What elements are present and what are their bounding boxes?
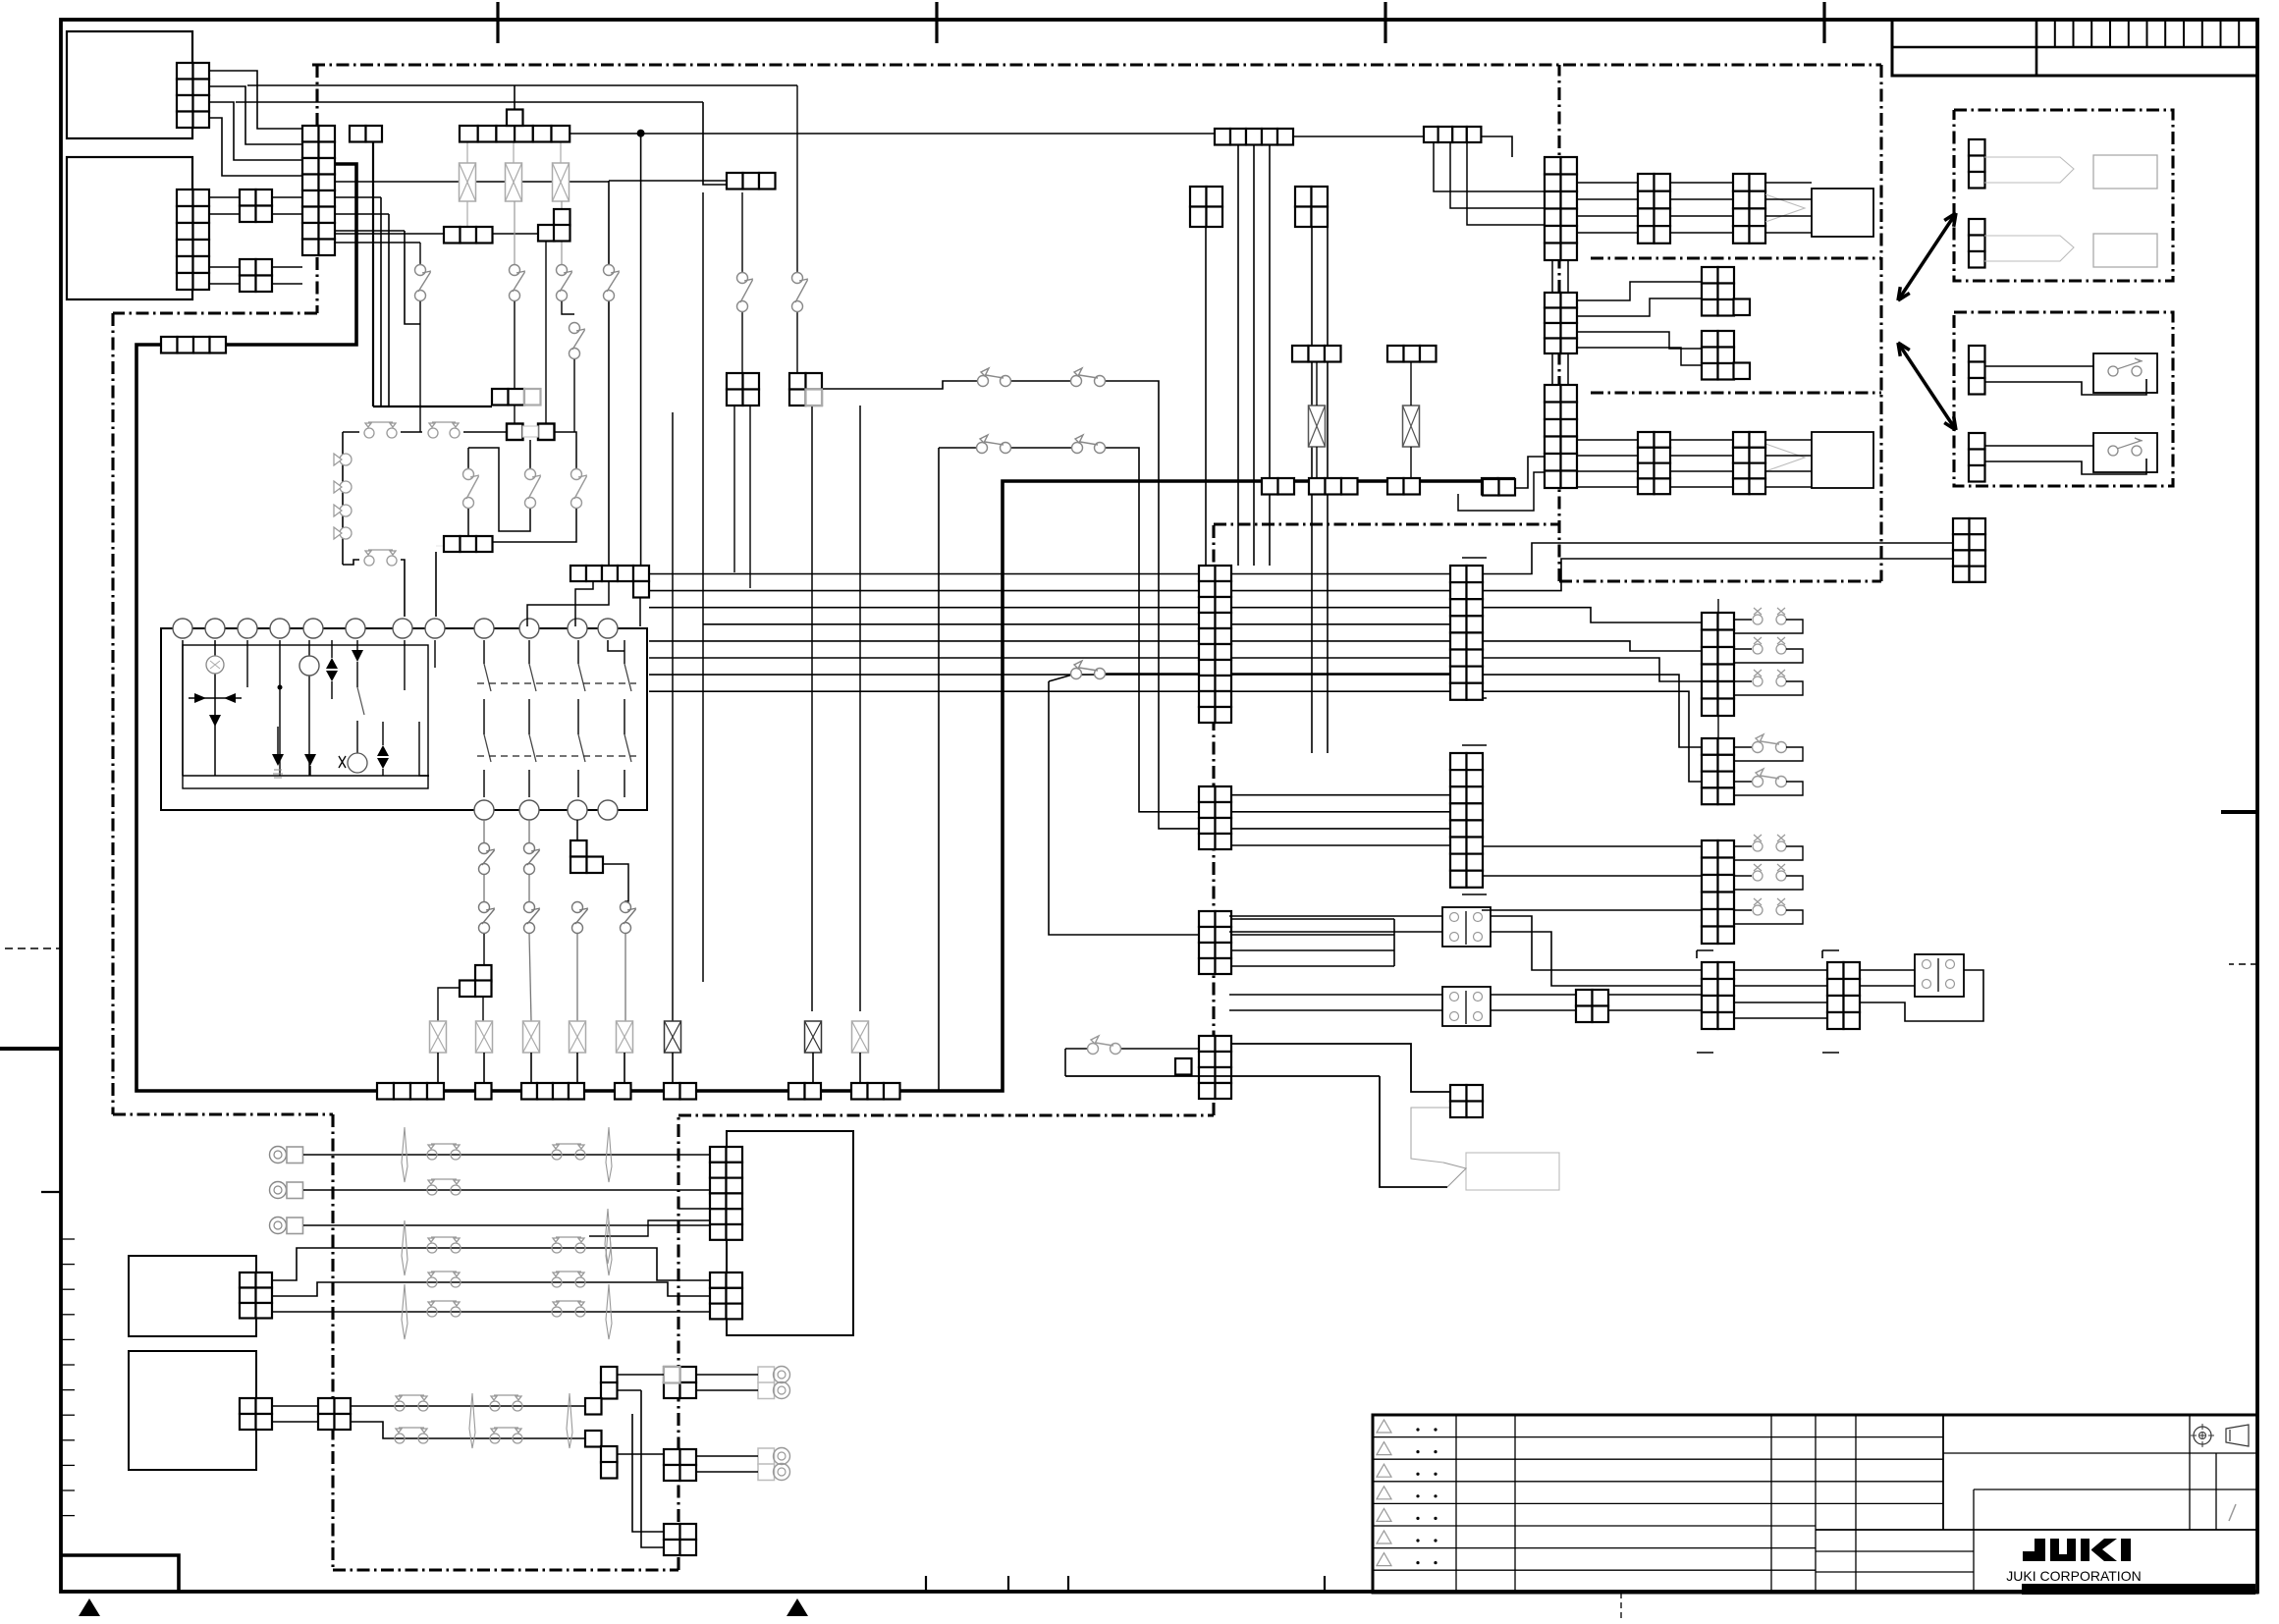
L connectors [601,1367,618,1383]
loop left contacts [342,432,344,565]
title mid section [1855,1415,1857,1530]
G44 switch loops [1734,619,1752,621]
CN G60 [1295,187,1328,227]
verticals G15/G16 down to fuses [811,406,813,1011]
CN 4x1 [161,337,226,353]
encoder connectors [1702,267,1734,316]
arrow 1 [1898,213,1956,300]
fuse row [430,1021,447,1053]
right unit internals [1969,139,1985,189]
loop switches [529,440,531,468]
power box 2 [67,157,192,299]
box5 connectors [710,1147,742,1240]
heavy power path [136,164,1483,1091]
CN 2x2 a [240,189,272,222]
CN G21 [1292,346,1341,362]
CN box2 [177,189,209,290]
G40 [1576,990,1608,1022]
CN main [302,126,335,255]
CN 3 mid [492,389,524,406]
encoder step wires [1576,282,1702,300]
motor2 wires [1576,439,1638,441]
CN G59 [1190,187,1222,227]
power box 1 [67,31,192,138]
gray loop G41 [1411,1108,1450,1163]
diode pair [194,693,206,703]
pcb internals [182,640,184,776]
rings bottom [758,1367,775,1383]
pedal circles right [1923,960,1931,969]
bus connectors [377,1083,444,1100]
presser label wiring [1230,1044,1450,1092]
box3 rows [272,1248,710,1280]
switch columns mid [419,243,421,264]
fold tick marks top edge [496,2,499,43]
control box terminals bottom [474,800,494,820]
control box pcb [183,645,428,788]
CN box1 [177,63,209,128]
header box top-right [1892,20,2257,76]
switch y686 [1049,674,1076,681]
motor2 connectors [1638,432,1670,494]
G27 [1483,479,1515,496]
left edge ticks [5,947,61,949]
G6 column down to G15/G16 [741,192,743,272]
dash-dot box: motors right [1954,110,2173,281]
wire: bus y136 to right [570,133,1215,135]
switch y1068 wire [1065,1048,1087,1050]
left ruler ticks [61,1238,75,1240]
G5b to C1 [1434,142,1545,191]
L conn below box [570,840,587,857]
label box light [1466,1153,1559,1190]
brackets [1697,949,1713,951]
bottom row [272,754,284,766]
revision table [1373,1436,1816,1438]
wires L/2x2/rings [617,1374,664,1376]
right-bottom connectors [1702,613,1734,716]
box3 connector [240,1272,272,1319]
wires G2 right side down to middle [372,141,374,406]
pedal boxes mid [1442,907,1491,947]
CN5b row [1424,127,1481,142]
dbl diode [326,658,338,681]
dash-dot boundary: control box unit [312,63,1881,66]
title right section [1943,1452,2257,1454]
wires G2 to G9/G10 [209,196,240,198]
control box terminals top [173,619,192,638]
central tall connectors [1199,566,1231,723]
svg-text:JUKI CORPORATION: JUKI CORPORATION [2006,1568,2141,1584]
switch row y388 [822,381,983,389]
led [352,650,363,662]
CN bus top [460,126,570,142]
first-angle projection symbol [2194,1427,2211,1444]
control box outline [161,628,647,810]
bus to C3 [1514,457,1545,488]
CN 3x1b [444,227,493,244]
wires rings to CN [303,1154,710,1156]
loop cells [507,424,523,441]
G41 [1450,1085,1483,1117]
dash-dot box: switches right [1954,312,2173,486]
box5 wires [136,1154,710,1156]
JUKI logo [2023,1539,2131,1561]
switch row y456 [939,447,982,449]
CN 2x2 c [727,373,759,406]
loop bottom [343,560,359,565]
L conn 2 [475,965,492,982]
relay contacts in control box [608,640,624,651]
motor connectors C1-C3 [1545,157,1577,260]
junction dot [637,130,645,137]
dash-dot boundary: panel unit right [1559,579,1881,582]
box4 rows [272,1405,318,1407]
verticals from G5/G59/G60 down [1237,144,1239,566]
motor M2 [1812,432,1873,488]
thick bus2 connectors [1262,478,1294,495]
bottom dashed tick [1620,1593,1622,1619]
G36 rows to right [1482,845,1702,847]
box3 [129,1256,256,1336]
CN 3x1 [727,173,776,189]
CN 2x2 b [240,259,272,292]
revision triangles [1377,1420,1391,1433]
2x2s bottom [664,1367,696,1398]
fuse column top wires [466,141,468,163]
CN5 row [1215,129,1293,145]
arrow 2 [1898,343,1956,430]
horn shapes right top [1984,157,2074,183]
wire: staircase box1 to CN [209,71,302,129]
fold triangles bottom [79,1598,100,1616]
safety sw loop [343,431,359,433]
long horizontal wire bundle to right connectors [649,573,1450,575]
fuses mid [1309,406,1326,447]
CN L [554,209,570,226]
box5 [727,1131,853,1335]
bundle right of G35 stepping to right units [1482,543,1953,574]
switch in boxes [2108,366,2118,376]
C stack stubs [1551,260,1553,293]
title block [1373,1415,2257,1593]
motor driver connectors [1638,174,1670,244]
CN 2x2 d [789,373,822,406]
switches below control box [483,820,485,842]
G13 tails [575,581,593,626]
box4 connector [240,1398,272,1430]
box4 [129,1351,256,1470]
G31/G35 mid bundle [1229,794,1450,796]
motor M1 [1812,189,1873,237]
motor1 wires [1576,182,1638,184]
CN loop 3x1 [444,536,493,552]
right edge ticks [2221,810,2257,814]
CN 5row mid [570,566,649,581]
wire: top long runs [247,84,797,86]
wires bottom right chains [1229,915,1442,917]
G45 [1953,518,1985,582]
pedal box right [1915,954,1964,997]
CN small [350,126,382,142]
tick marks bottom edge [925,1576,927,1592]
bottom-left corner box [61,1555,179,1592]
ring terminals left [270,1147,287,1164]
